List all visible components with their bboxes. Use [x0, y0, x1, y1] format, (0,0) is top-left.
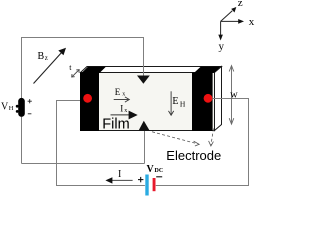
svg-text:E: E: [172, 96, 178, 107]
svg-text:w: w: [230, 89, 238, 100]
svg-text:y: y: [219, 40, 225, 52]
svg-text:H: H: [180, 100, 186, 109]
svg-text:E: E: [115, 87, 121, 97]
svg-text:Electrode: Electrode: [166, 148, 221, 163]
svg-text:V: V: [147, 164, 155, 175]
svg-text:x: x: [124, 108, 127, 114]
svg-text:z: z: [45, 54, 48, 62]
svg-text:I: I: [118, 169, 121, 180]
svg-text:z: z: [238, 0, 243, 9]
svg-text:I: I: [120, 103, 123, 113]
svg-text:B: B: [38, 51, 45, 62]
svg-text:x: x: [122, 92, 125, 98]
svg-text:H: H: [9, 105, 14, 112]
svg-text:Film: Film: [102, 116, 129, 132]
svg-text:DC: DC: [155, 168, 164, 174]
svg-text:x: x: [249, 16, 255, 28]
